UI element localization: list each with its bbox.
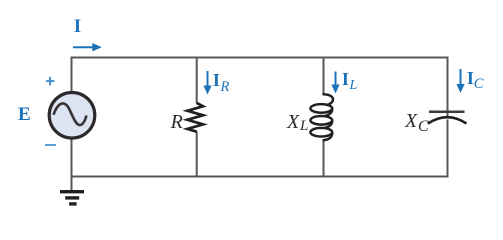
- wire resistor branch bottom: [196, 132, 198, 177]
- label E: [18, 105, 31, 124]
- current arrow I (top, rightward): [73, 43, 102, 51]
- current arrow IC (down): [456, 69, 464, 93]
- ground: [60, 190, 84, 206]
- label XL: [287, 112, 299, 132]
- resistor R: [187, 103, 203, 132]
- ac source sine wave: [54, 103, 87, 125]
- label R: [171, 112, 183, 132]
- current arrow IL (down): [331, 72, 339, 94]
- label I: [74, 17, 81, 36]
- label minus: [45, 144, 56, 146]
- inductor XL coil: [310, 94, 333, 140]
- label XC: [405, 111, 417, 131]
- ac source E circle: [49, 93, 95, 139]
- wire source to ground: [71, 140, 73, 192]
- wire resistor branch top: [196, 58, 198, 104]
- wire inductor branch bottom: [323, 140, 325, 177]
- current arrow IR (down): [203, 71, 211, 95]
- label plus: [44, 75, 57, 88]
- label IC: [467, 69, 474, 87]
- label IR: [213, 71, 220, 89]
- wire inductor branch top: [323, 58, 325, 95]
- capacitor XC bottom curved plate: [428, 117, 467, 123]
- wire bottom rail: [72, 120, 448, 177]
- wire top rail: [72, 58, 448, 118]
- label IL: [342, 70, 349, 88]
- capacitor XC top plate: [429, 111, 465, 114]
